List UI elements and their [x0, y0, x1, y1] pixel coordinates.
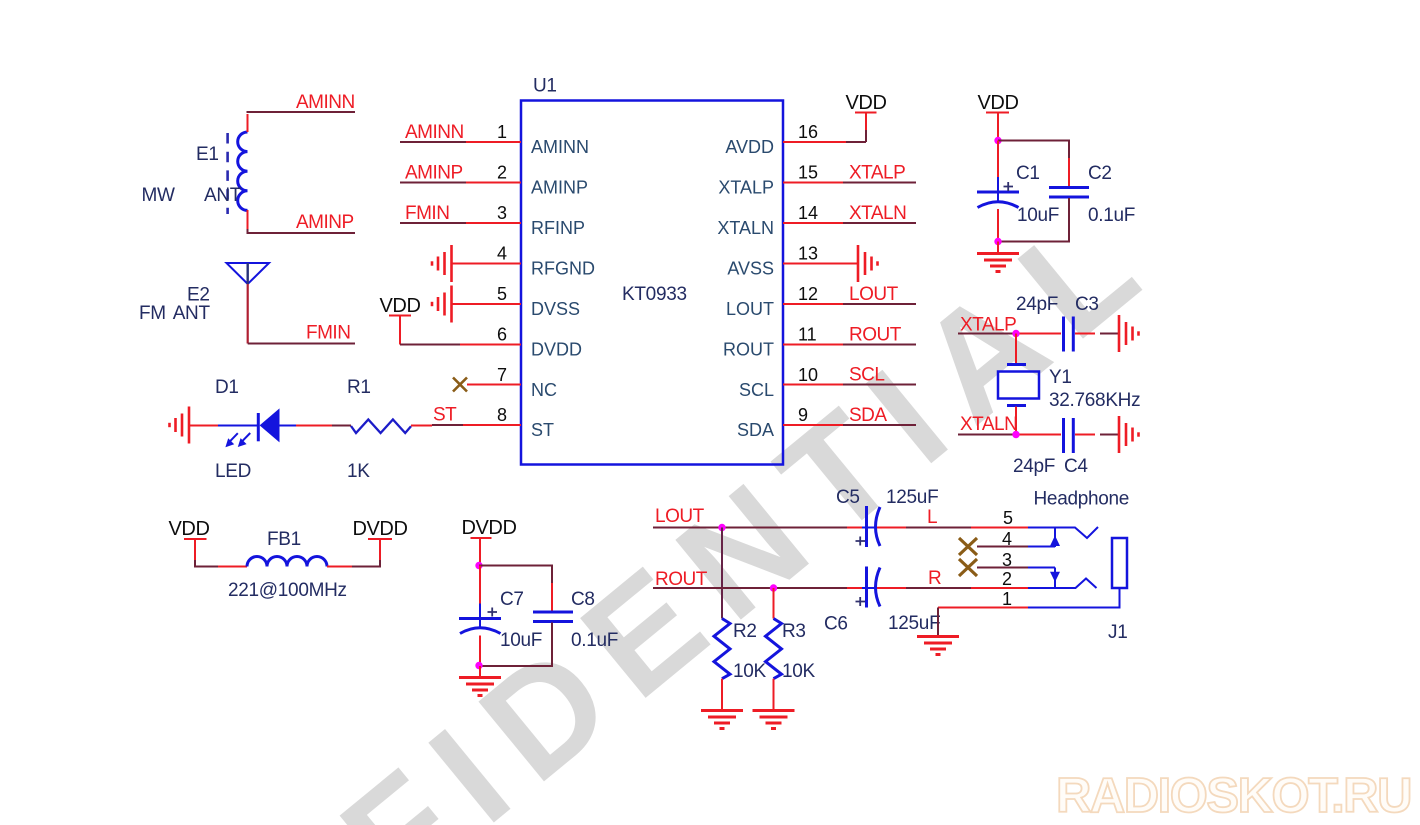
svg-text:1: 1 — [497, 122, 507, 142]
svg-text:AMINP: AMINP — [296, 212, 354, 233]
wire pin 1 AMINN — [400, 141, 466, 143]
junction node (XTALN) — [1012, 431, 1019, 438]
svg-text:125uF: 125uF — [888, 613, 940, 634]
svg-text:XTALN: XTALN — [849, 203, 906, 224]
wire ROUT dot down to R3 — [773, 588, 775, 619]
svg-text:13: 13 — [798, 244, 818, 264]
wire R1 to pin 8 — [411, 425, 432, 427]
svg-text:C3: C3 — [1075, 294, 1099, 315]
no-connect X (pin 7) — [453, 378, 467, 392]
svg-text:AMINN: AMINN — [405, 122, 464, 143]
svg-text:8: 8 — [497, 405, 507, 425]
resistor R2 — [714, 619, 730, 679]
junction node (XTALP) — [1012, 330, 1019, 337]
diode D1 LED — [257, 413, 260, 441]
svg-text:AMINP: AMINP — [405, 163, 463, 184]
wire DVDD down — [479, 538, 481, 565]
svg-text:3: 3 — [497, 203, 507, 223]
wire FB1 to DVDD — [327, 566, 352, 568]
capacitor C4 — [1062, 418, 1065, 453]
svg-text:AMINN: AMINN — [531, 137, 589, 157]
svg-text:XTALP: XTALP — [960, 315, 1016, 336]
svg-text:VDD: VDD — [379, 295, 420, 317]
ground (pin 13 AVSS) — [858, 245, 878, 282]
wire top bus to C2 — [998, 141, 1069, 188]
svg-text:C5: C5 — [836, 487, 860, 508]
svg-text:U1: U1 — [533, 76, 557, 97]
svg-text:C8: C8 — [571, 589, 595, 610]
capacitor C6 (polarized) — [865, 567, 868, 608]
svg-text:DVDD: DVDD — [461, 517, 516, 539]
svg-text:RFINP: RFINP — [531, 218, 585, 238]
svg-text:VDD: VDD — [845, 92, 886, 114]
junction node (C7 bottom) — [475, 662, 482, 669]
wire LOUT rail — [653, 527, 722, 529]
wire pin 13 AVSS — [783, 263, 857, 265]
C5 plus sign — [856, 537, 866, 546]
power symbol VDD (pin 16) — [855, 112, 877, 114]
svg-text:FB1: FB1 — [267, 529, 301, 550]
ground (D1 cathode) — [170, 407, 190, 444]
wire ground to D1 — [189, 425, 218, 427]
svg-text:16: 16 — [798, 122, 818, 142]
svg-text:7: 7 — [497, 365, 507, 385]
junction node (C7 top) — [475, 562, 482, 569]
svg-text:2: 2 — [497, 163, 507, 183]
capacitor C5 (polarized) — [865, 506, 868, 547]
wire XTALP to crystal — [1015, 334, 1017, 364]
capacitor C2 — [1049, 186, 1089, 189]
antenna E2 symbol — [227, 263, 270, 284]
svg-text:VDD: VDD — [168, 518, 209, 540]
wire pin 15 XTALP — [783, 182, 843, 184]
wire R3 to ground — [773, 679, 775, 710]
wire VDD down — [997, 113, 999, 141]
svg-text:6: 6 — [497, 325, 507, 345]
wire jack pin 3 — [977, 567, 1028, 569]
svg-text:LOUT: LOUT — [726, 299, 774, 319]
svg-text:R3: R3 — [782, 621, 806, 642]
svg-text:10K: 10K — [782, 661, 816, 682]
C1 plus sign — [1004, 182, 1014, 191]
svg-text:221@100MHz: 221@100MHz — [228, 580, 347, 601]
ground (J1) — [917, 637, 959, 655]
svg-text:C2: C2 — [1088, 163, 1112, 184]
C6 plus sign — [856, 597, 866, 606]
wire R2 to ground — [721, 679, 723, 710]
svg-text:FMIN: FMIN — [306, 323, 350, 344]
resistor R1 — [351, 420, 411, 434]
svg-text:FM: FM — [139, 303, 166, 324]
wire to ground — [997, 242, 999, 254]
svg-text:L: L — [927, 507, 937, 528]
svg-text:RADIOSKOT.RU: RADIOSKOT.RU — [1056, 769, 1411, 823]
wire pin 7 — [467, 384, 521, 386]
svg-text:14: 14 — [798, 203, 818, 223]
svg-text:VDD: VDD — [977, 92, 1018, 114]
ground (R3) — [753, 711, 795, 729]
svg-text:C1: C1 — [1016, 163, 1040, 184]
svg-text:10K: 10K — [733, 661, 767, 682]
wire C7 top — [479, 566, 481, 605]
svg-text:AVSS: AVSS — [727, 259, 774, 279]
svg-text:LED: LED — [215, 461, 251, 482]
svg-text:Headphone: Headphone — [1034, 489, 1130, 510]
svg-text:MW: MW — [142, 185, 176, 206]
power symbol DVDD (FB1) — [368, 538, 392, 540]
wire pin 5 — [452, 303, 522, 305]
wire pin 9 SDA — [783, 424, 843, 426]
svg-text:AMINN: AMINN — [296, 92, 355, 113]
no-connect X (jack pin 4) — [959, 538, 977, 555]
svg-text:R1: R1 — [347, 377, 371, 398]
inductor E1 coil — [238, 132, 248, 210]
wire pin 12 LOUT — [783, 303, 843, 305]
capacitor C3 — [1062, 317, 1065, 352]
wire XTALN rail — [958, 434, 1016, 436]
wire C2 bottom — [1068, 198, 1070, 225]
wire pin 16 — [783, 141, 846, 143]
svg-text:SCL: SCL — [739, 380, 774, 400]
wire XTALP rail — [958, 333, 1016, 335]
wire VDD to FB1 — [194, 539, 196, 560]
svg-text:Y1: Y1 — [1049, 367, 1072, 388]
junction node (C1 top) — [994, 137, 1001, 144]
wire D1 to R1 — [280, 425, 297, 427]
svg-text:LOUT: LOUT — [655, 506, 705, 527]
svg-text:XTALN: XTALN — [717, 218, 774, 238]
svg-text:KT0933: KT0933 — [622, 284, 687, 305]
antenna E2 mast — [247, 284, 249, 344]
wire top bus to C8 — [479, 566, 552, 609]
wire E1 bottom lead — [247, 210, 249, 230]
svg-text:32.768KHz: 32.768KHz — [1049, 390, 1140, 411]
svg-text:C4: C4 — [1064, 456, 1088, 477]
wire crystal to XTALN — [1015, 407, 1017, 435]
wire C6 to jack pin 2 — [877, 587, 906, 589]
svg-text:10: 10 — [798, 365, 818, 385]
svg-text:NC: NC — [531, 380, 557, 400]
wire ROUT rail — [653, 587, 772, 589]
svg-text:9: 9 — [798, 405, 808, 425]
svg-text:DVDD: DVDD — [531, 340, 582, 360]
ground (C4) — [1119, 416, 1139, 453]
svg-text:5: 5 — [1003, 508, 1013, 528]
wire jack pin 1 sleeve — [938, 607, 1028, 609]
svg-text:XTALN: XTALN — [960, 414, 1017, 435]
wire C1 bottom — [997, 209, 999, 242]
inductor FB1 — [247, 557, 327, 567]
capacitor C8 — [533, 611, 573, 614]
ground (C1/C2) — [977, 254, 1019, 272]
svg-text:SDA: SDA — [737, 420, 774, 440]
wire to ground — [479, 666, 481, 678]
wire pin 2 AMINP — [400, 182, 466, 184]
wire C5 to jack pin 5 — [877, 527, 906, 529]
svg-text:ROUT: ROUT — [849, 325, 902, 346]
capacitor C1 (polarized) — [977, 191, 1019, 194]
svg-text:24pF: 24pF — [1013, 456, 1055, 477]
no-connect X (jack pin 3) — [959, 559, 977, 576]
inductor E1 dashed core — [226, 133, 229, 214]
wire VDD to pin 6 — [399, 316, 401, 345]
svg-text:0.1uF: 0.1uF — [571, 630, 618, 651]
svg-text:10uF: 10uF — [500, 630, 542, 651]
svg-text:10uF: 10uF — [1017, 205, 1059, 226]
svg-text:XTALP: XTALP — [849, 163, 905, 184]
junction node (LOUT / R2) — [718, 524, 725, 531]
svg-text:ST: ST — [433, 405, 457, 426]
svg-text:15: 15 — [798, 163, 818, 183]
svg-text:ANT: ANT — [173, 303, 211, 324]
svg-text:R: R — [928, 568, 941, 589]
svg-text:1: 1 — [1002, 589, 1012, 609]
svg-text:FMIN: FMIN — [405, 203, 449, 224]
wire pin 4 — [452, 263, 522, 265]
wire jack pin 4 — [977, 546, 1028, 548]
svg-text:5: 5 — [497, 284, 507, 304]
C7 plus sign — [488, 608, 498, 617]
ground (C3) — [1119, 315, 1139, 352]
svg-text:AMINP: AMINP — [531, 178, 588, 198]
svg-text:4: 4 — [497, 244, 507, 264]
wire pin 14 XTALN — [783, 222, 843, 224]
junction node (ROUT / R3) — [770, 584, 777, 591]
svg-text:11: 11 — [798, 325, 817, 345]
svg-text:E1: E1 — [196, 144, 219, 165]
jack body J1 — [1112, 538, 1127, 588]
svg-text:C6: C6 — [824, 614, 848, 635]
capacitor C7 (polarized) — [459, 617, 501, 620]
svg-text:1K: 1K — [347, 461, 370, 482]
svg-text:DVDD: DVDD — [352, 518, 407, 540]
ground (R2) — [701, 711, 743, 729]
svg-text:12: 12 — [798, 284, 818, 304]
svg-text:RFGND: RFGND — [531, 259, 595, 279]
svg-text:R2: R2 — [733, 621, 757, 642]
wire LOUT dot down to R2 — [721, 528, 723, 619]
svg-text:2: 2 — [1002, 569, 1012, 589]
wire C1 top — [997, 141, 999, 179]
wire jack pin 5 — [1028, 527, 1098, 538]
svg-text:0.1uF: 0.1uF — [1088, 205, 1135, 226]
svg-text:ROUT: ROUT — [655, 569, 708, 590]
wire jack pin 2 tip contact — [1028, 579, 1097, 589]
resistor R3 — [766, 619, 782, 679]
svg-text:LOUT: LOUT — [849, 284, 899, 305]
svg-text:SCL: SCL — [849, 365, 884, 386]
svg-text:D1: D1 — [215, 377, 239, 398]
wire pin 3 FMIN — [400, 222, 466, 224]
ground (pin 5 DVSS) — [432, 286, 452, 323]
switch arrow up (pin 4) — [1054, 528, 1056, 548]
svg-text:AVDD: AVDD — [725, 137, 774, 157]
ground (pin 4 RFGND) — [432, 245, 452, 282]
svg-text:J1: J1 — [1108, 622, 1127, 643]
wire C3 to ground — [1075, 333, 1095, 335]
ic U1 body — [521, 101, 783, 465]
wire C7 bottom — [479, 636, 481, 667]
svg-text:XTALP: XTALP — [718, 178, 774, 198]
wire FMIN (E2) — [248, 343, 355, 345]
wire C8 bottom — [551, 623, 553, 651]
svg-text:SDA: SDA — [849, 405, 887, 426]
junction node (C1 bottom) — [994, 238, 1001, 245]
LED arrows — [229, 433, 238, 442]
svg-text:125uF: 125uF — [886, 487, 938, 508]
svg-text:ST: ST — [531, 420, 554, 440]
ground (C7/C8) — [459, 678, 501, 696]
svg-text:DVSS: DVSS — [531, 299, 580, 319]
svg-text:C7: C7 — [500, 589, 524, 610]
svg-text:ROUT: ROUT — [723, 340, 774, 360]
wire pin 1 to ground — [937, 608, 939, 637]
wire pin 11 ROUT — [783, 344, 843, 346]
wire pin 10 SCL — [783, 384, 843, 386]
wire C4 to ground — [1075, 434, 1095, 436]
svg-text:24pF: 24pF — [1016, 294, 1058, 315]
crystal Y1 — [1007, 363, 1026, 366]
svg-text:ANT: ANT — [204, 185, 242, 206]
wire E1 top lead — [247, 114, 249, 132]
switch arrow down (pin 3) — [1054, 568, 1056, 589]
